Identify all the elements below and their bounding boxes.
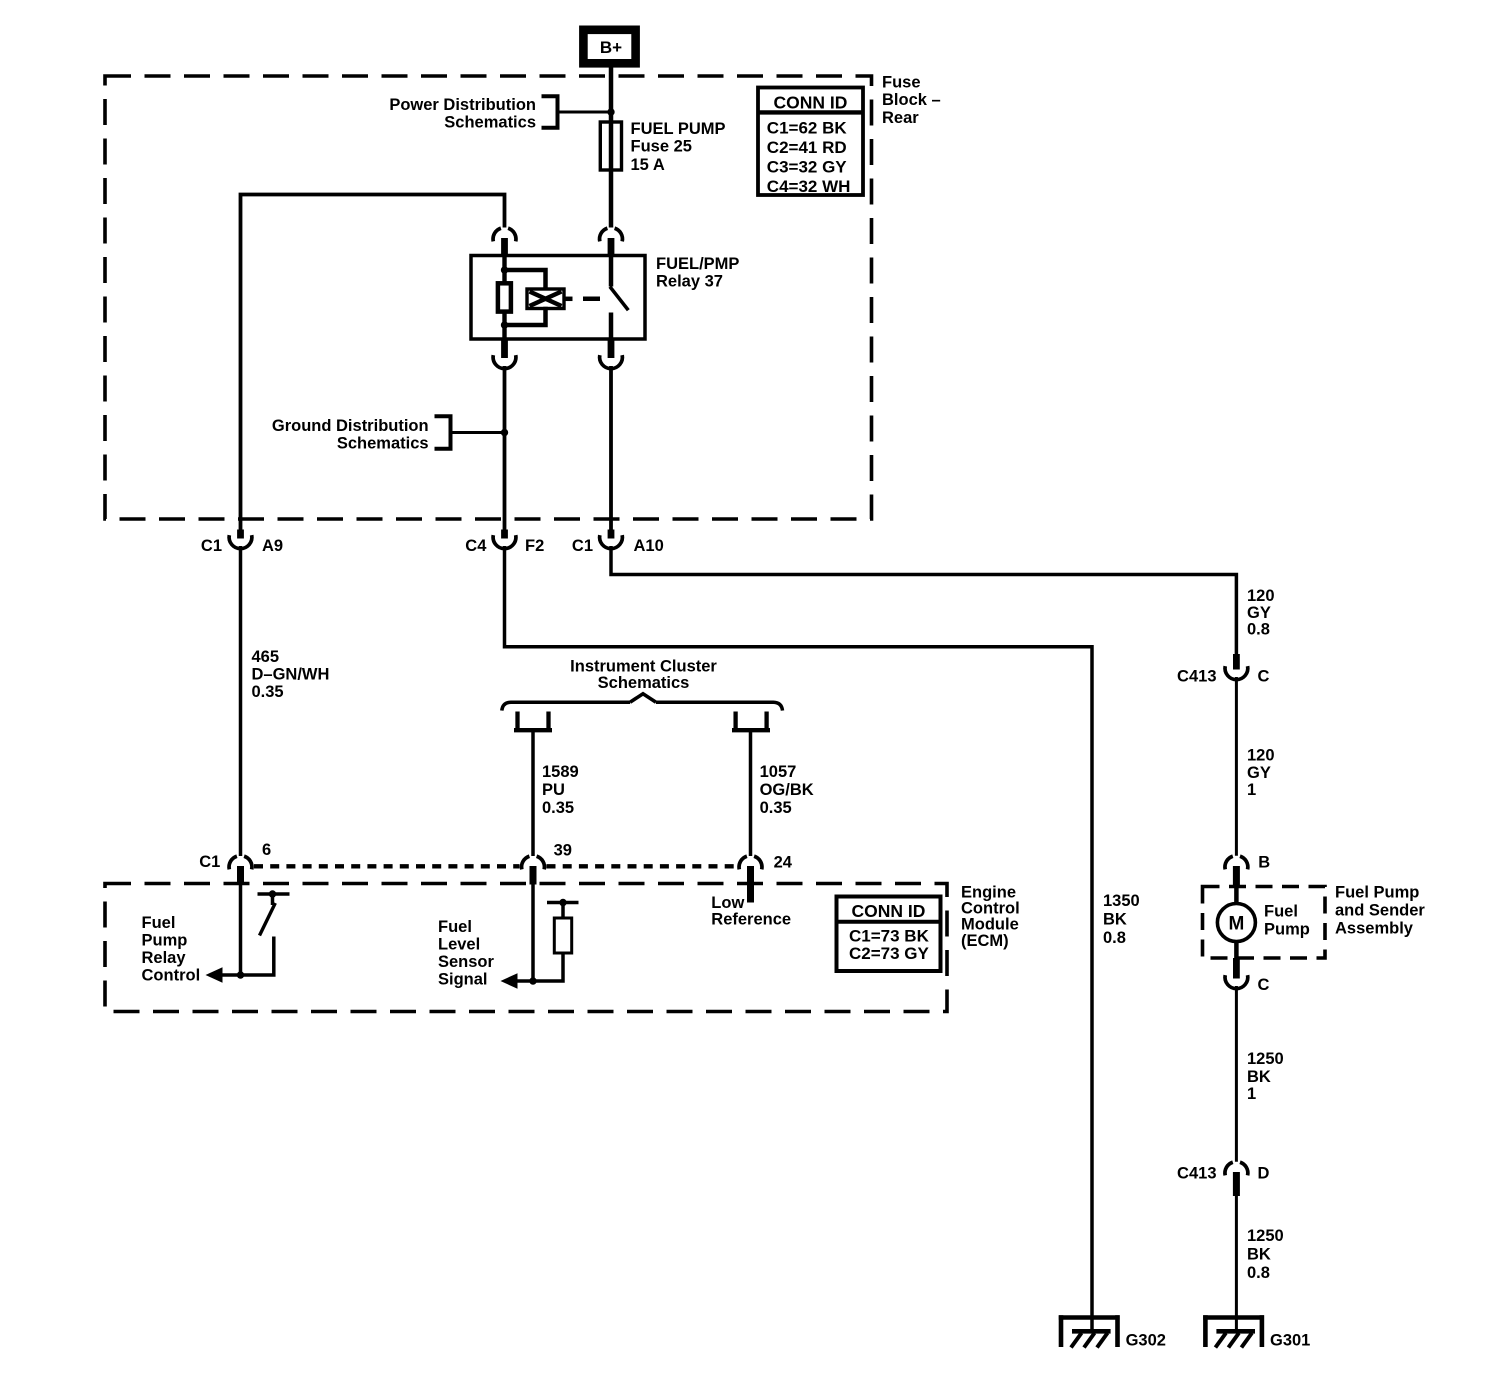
ECM dashed boundary — [105, 884, 947, 1012]
connector ECM pin 24 — [739, 856, 762, 869]
wire switch lower terminal — [241, 937, 274, 976]
svg-text:C1: C1 — [201, 537, 222, 555]
svg-text:1350: 1350 — [1103, 892, 1140, 910]
wire relay pin 87 to C1 A10 — [609, 366, 613, 532]
wire relay control branch: A9 up, across, down to relay pin 86 — [241, 195, 505, 533]
ground G301 — [1203, 1315, 1264, 1320]
wire fuel level sensor signal output — [517, 979, 533, 983]
svg-text:1589: 1589 — [542, 763, 579, 781]
ECM sensor pull-up bar — [547, 901, 579, 905]
svg-text:BK: BK — [1103, 911, 1127, 929]
node relay coil top junction — [501, 266, 508, 273]
ECM driver switch contact bar — [258, 892, 290, 896]
connector relay pin 85 (bottom left) — [501, 339, 508, 358]
node pull-up junction — [559, 899, 566, 906]
terminal to instrument cluster (fuel level signal) — [515, 712, 519, 729]
svg-text:465: 465 — [252, 648, 280, 666]
svg-text:0.8: 0.8 — [1247, 1264, 1270, 1282]
svg-text:Fuel Pump: Fuel Pump — [1335, 884, 1419, 902]
svg-text:Instrument Cluster: Instrument Cluster — [570, 658, 717, 676]
svg-text:D: D — [1258, 1165, 1270, 1183]
wire solenoid actuator stub — [564, 297, 573, 302]
connector C1 pin A10 — [608, 530, 615, 539]
svg-text:A10: A10 — [634, 537, 664, 555]
svg-text:C3=32 GY: C3=32 GY — [767, 158, 848, 177]
svg-text:Rear: Rear — [882, 109, 919, 127]
svg-text:1250: 1250 — [1247, 1227, 1284, 1245]
svg-text:CONN ID: CONN ID — [774, 92, 848, 112]
svg-text:1250: 1250 — [1247, 1050, 1284, 1068]
svg-text:CONN ID: CONN ID — [852, 901, 926, 921]
wire 1057 OG/BK from cluster to ECM pin 24 — [749, 730, 753, 856]
svg-text:Power Distribution: Power Distribution — [389, 96, 536, 114]
fuse block - rear dashed boundary — [105, 76, 872, 519]
svg-text:G302: G302 — [1126, 1332, 1166, 1350]
wire ECM pin 39 lead down — [531, 885, 535, 982]
svg-text:C: C — [1258, 976, 1270, 994]
motor M fuel pump — [1217, 904, 1255, 942]
bracket Ground Distribution — [435, 416, 451, 449]
svg-text:39: 39 — [554, 842, 572, 860]
svg-text:Level: Level — [438, 936, 480, 954]
svg-text:Fuel: Fuel — [1264, 903, 1298, 921]
svg-text:C: C — [1258, 668, 1270, 686]
svg-text:15 A: 15 A — [631, 156, 665, 174]
node ground tap junction — [501, 429, 508, 436]
connector relay pin 30 (top right) — [600, 228, 623, 241]
svg-text:Assembly: Assembly — [1335, 920, 1414, 938]
wire relay switch lower lead — [609, 313, 614, 340]
svg-text:Ground Distribution: Ground Distribution — [272, 417, 429, 435]
relay solenoid element (X box) — [527, 289, 564, 309]
svg-text:Pump: Pump — [142, 932, 188, 950]
CONN ID table (fuse block) — [758, 88, 863, 196]
connector relay pin 86 (top left) — [493, 228, 516, 241]
resistor ECM pull-up — [554, 918, 571, 953]
wire 1589 PU from cluster to ECM pin 39 — [531, 730, 535, 856]
relay FUEL/PMP Relay 37 box — [471, 256, 645, 340]
svg-text:FUEL PUMP: FUEL PUMP — [631, 120, 726, 138]
svg-text:(ECM): (ECM) — [961, 932, 1009, 950]
wire relay coil top lead — [502, 256, 506, 285]
ECM connector dotted face line — [254, 864, 520, 868]
svg-text:1057: 1057 — [760, 763, 797, 781]
wire tap to ground distribution — [451, 431, 505, 434]
wire coil parallel branch bottom — [505, 307, 546, 325]
connector C413 pin D — [1225, 1162, 1248, 1175]
CONN ID table (ECM) — [837, 897, 941, 972]
svg-text:Fuse: Fuse — [882, 74, 921, 92]
wire coil parallel branch top — [505, 270, 546, 291]
svg-text:Block –: Block – — [882, 91, 941, 109]
wire pump motor top lead — [1234, 888, 1239, 905]
connector fuel pump pin C — [1233, 958, 1240, 979]
svg-text:0.35: 0.35 — [252, 683, 284, 701]
svg-text:PU: PU — [542, 781, 565, 799]
wire relay coil bottom lead — [502, 312, 506, 340]
wire 1250 BK 1 to C413 D — [1235, 986, 1238, 1162]
connector ECM C1 pin 6 — [229, 856, 252, 869]
svg-text:C1: C1 — [199, 853, 220, 871]
svg-text:A9: A9 — [262, 537, 283, 555]
wire relay switch upper lead — [609, 256, 614, 287]
svg-text:Low: Low — [711, 894, 744, 912]
ground G302 — [1059, 1315, 1120, 1320]
svg-text:Schematics: Schematics — [444, 114, 536, 132]
svg-text:and Sender: and Sender — [1335, 902, 1425, 920]
wire 1350 BK: F2 down, across, down to G302 — [505, 546, 1093, 1331]
svg-text:Signal: Signal — [438, 971, 488, 989]
svg-text:B+: B+ — [600, 38, 622, 57]
svg-text:Control: Control — [142, 967, 201, 985]
node pin 39 junction — [529, 977, 536, 984]
svg-text:FUEL/PMP: FUEL/PMP — [656, 255, 739, 273]
svg-text:C1=73 BK: C1=73 BK — [849, 927, 930, 946]
svg-text:BK: BK — [1247, 1068, 1271, 1086]
battery feed B+ — [583, 30, 635, 64]
wire pull-up stub — [561, 903, 565, 919]
fuel pump and sender assembly dashed box — [1203, 887, 1326, 959]
svg-text:120: 120 — [1247, 747, 1275, 765]
wire tap to power distribution — [558, 111, 612, 114]
svg-text:0.35: 0.35 — [760, 799, 792, 817]
fuse FUEL PUMP Fuse 25 15A — [600, 122, 621, 170]
wire relay pin 85 to C4 F2 — [503, 366, 507, 532]
wire 1250 BK 0.8 to G301 — [1235, 1196, 1238, 1331]
svg-text:0.8: 0.8 — [1103, 929, 1126, 947]
relay switch blade — [610, 287, 628, 311]
connector fuel pump pin B — [1225, 856, 1248, 869]
relay coil winding (resistor) — [498, 283, 511, 311]
svg-text:Relay 37: Relay 37 — [656, 273, 723, 291]
connector relay pin 87 (bottom right) — [608, 339, 615, 358]
wire 465 D-GN/WH from A9 to ECM pin 6 — [239, 546, 243, 856]
svg-text:Schematics: Schematics — [337, 435, 429, 453]
connector C4 pin F2 — [501, 530, 508, 539]
ECM driver switch blade — [260, 903, 276, 936]
svg-text:120: 120 — [1247, 587, 1275, 605]
svg-text:D–GN/WH: D–GN/WH — [252, 666, 330, 684]
svg-text:F2: F2 — [525, 537, 544, 555]
svg-text:C2=73 GY: C2=73 GY — [849, 944, 930, 963]
svg-text:BK: BK — [1247, 1246, 1271, 1264]
svg-text:0.35: 0.35 — [542, 799, 574, 817]
arrow fuel level sensor signal — [501, 973, 518, 989]
wire ECM pin 6 lead down — [239, 885, 243, 976]
connector C1 pin A9 — [237, 530, 244, 539]
wire 120 GY: A10 down, across, down to C413 C — [611, 546, 1236, 656]
connector ECM pin 39 — [522, 856, 545, 869]
svg-text:Relay: Relay — [142, 949, 187, 967]
svg-text:Module: Module — [961, 916, 1019, 934]
svg-text:M: M — [1228, 913, 1244, 934]
bracket Power Distribution — [542, 96, 558, 128]
svg-text:C2=41 RD: C2=41 RD — [767, 138, 847, 157]
svg-text:C4: C4 — [465, 537, 487, 555]
wire pull-up bottom lead — [533, 953, 563, 981]
wire switch contact stub — [271, 894, 275, 905]
wire pump motor bottom lead — [1234, 941, 1239, 959]
wire 120 GY 1 to fuel pump B — [1235, 677, 1238, 856]
wire fuel pump relay control output — [222, 973, 241, 977]
svg-text:Schematics: Schematics — [598, 674, 690, 692]
wire B+ feed down through fuse to relay pin 30 — [609, 67, 614, 228]
svg-text:1: 1 — [1247, 781, 1256, 799]
node relay coil bottom junction — [501, 321, 508, 328]
svg-text:OG/BK: OG/BK — [760, 781, 814, 799]
svg-text:C413: C413 — [1177, 1165, 1216, 1183]
svg-text:G301: G301 — [1270, 1332, 1310, 1350]
svg-text:Sensor: Sensor — [438, 953, 495, 971]
svg-text:24: 24 — [774, 854, 793, 872]
brace instrument cluster — [502, 702, 783, 710]
svg-text:GY: GY — [1247, 604, 1271, 622]
svg-text:Fuel: Fuel — [438, 918, 472, 936]
svg-text:6: 6 — [262, 841, 271, 859]
node pin 6 junction — [237, 971, 244, 978]
svg-text:C413: C413 — [1177, 668, 1216, 686]
connector C413 pin C — [1233, 654, 1240, 670]
svg-text:Fuse 25: Fuse 25 — [631, 138, 692, 156]
svg-text:0.8: 0.8 — [1247, 621, 1270, 639]
terminal to instrument cluster (low reference) — [733, 712, 737, 729]
svg-text:C1=62 BK: C1=62 BK — [767, 119, 848, 138]
svg-text:C4=32 WH: C4=32 WH — [767, 177, 851, 196]
svg-text:Reference: Reference — [711, 911, 791, 929]
svg-text:Pump: Pump — [1264, 921, 1310, 939]
node switch contact junction — [269, 890, 276, 897]
svg-text:Fuel: Fuel — [142, 914, 176, 932]
svg-text:GY: GY — [1247, 764, 1271, 782]
svg-text:1: 1 — [1247, 1085, 1256, 1103]
svg-text:B: B — [1258, 854, 1270, 872]
node power tap junction — [607, 108, 614, 115]
wire actuator dashed link — [583, 297, 600, 302]
arrow fuel pump relay control — [206, 967, 223, 983]
svg-text:C1: C1 — [572, 537, 593, 555]
